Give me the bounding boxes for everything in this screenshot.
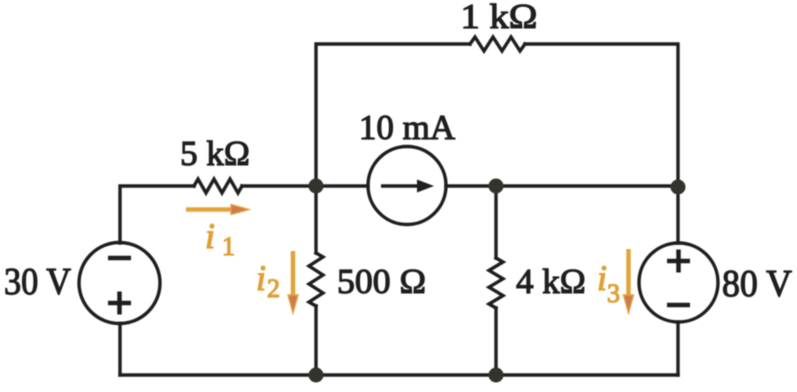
wire 500 ohm branch top <box>314 186 317 253</box>
wire 4k branch bottom <box>494 308 497 375</box>
wire 80V bottom <box>676 322 679 375</box>
wire 4k branch top <box>494 186 497 258</box>
resistor 5 kOhm zigzag <box>194 179 242 193</box>
plus sign of 80 V source <box>667 250 690 273</box>
wire top-left horizontal (node A to 1k) <box>316 44 470 186</box>
current arrow i2 <box>288 251 298 313</box>
svg-text:2: 2 <box>267 274 280 303</box>
node dot at bottom 4k <box>489 368 504 383</box>
svg-text:5 kΩ: 5 kΩ <box>180 134 250 173</box>
minus sign of 80 V source <box>667 303 690 308</box>
svg-text:3: 3 <box>607 279 620 308</box>
current arrow i1 <box>186 205 249 215</box>
wire 1k to right top corner and down <box>525 44 678 243</box>
node dot at right junction <box>671 180 686 195</box>
voltage source 30 V circle <box>79 243 160 324</box>
resistor 4 kOhm zigzag vertical <box>489 258 503 308</box>
wire 10mA to right node <box>446 184 678 187</box>
wire 30V bottom <box>118 324 121 376</box>
arrow inside 10 mA source <box>381 180 434 193</box>
current source 10 mA circle <box>368 147 446 225</box>
node dot at middle-right junction <box>489 179 504 194</box>
wire 500 ohm branch bottom <box>314 306 317 375</box>
plus sign of 30 V source <box>108 292 131 315</box>
svg-text:1: 1 <box>222 232 235 261</box>
svg-text:30 V: 30 V <box>4 261 71 303</box>
voltage source 80 V circle <box>639 243 718 322</box>
wire 5k to 10mA source <box>242 184 368 187</box>
svg-text:i: i <box>256 258 266 298</box>
svg-text:500 Ω: 500 Ω <box>337 262 426 301</box>
svg-text:80 V: 80 V <box>722 263 793 305</box>
wire bottom rail <box>120 373 678 376</box>
minus sign of 30 V source <box>108 256 131 261</box>
wire middle left: from 30V top corner to 5k <box>120 186 194 243</box>
svg-text:i: i <box>597 258 607 298</box>
current arrow i3 <box>624 249 634 313</box>
svg-text:10 mA: 10 mA <box>359 108 456 147</box>
svg-text:1 kΩ: 1 kΩ <box>461 0 538 36</box>
node dot at middle-left junction <box>309 179 324 194</box>
resistor 500 Ohm zigzag vertical <box>309 253 323 306</box>
node dot at bottom 500 ohm <box>309 368 324 383</box>
svg-text:4 kΩ: 4 kΩ <box>516 262 586 301</box>
svg-text:i: i <box>205 216 215 256</box>
resistor R 1 kOhm zigzag <box>470 37 525 51</box>
